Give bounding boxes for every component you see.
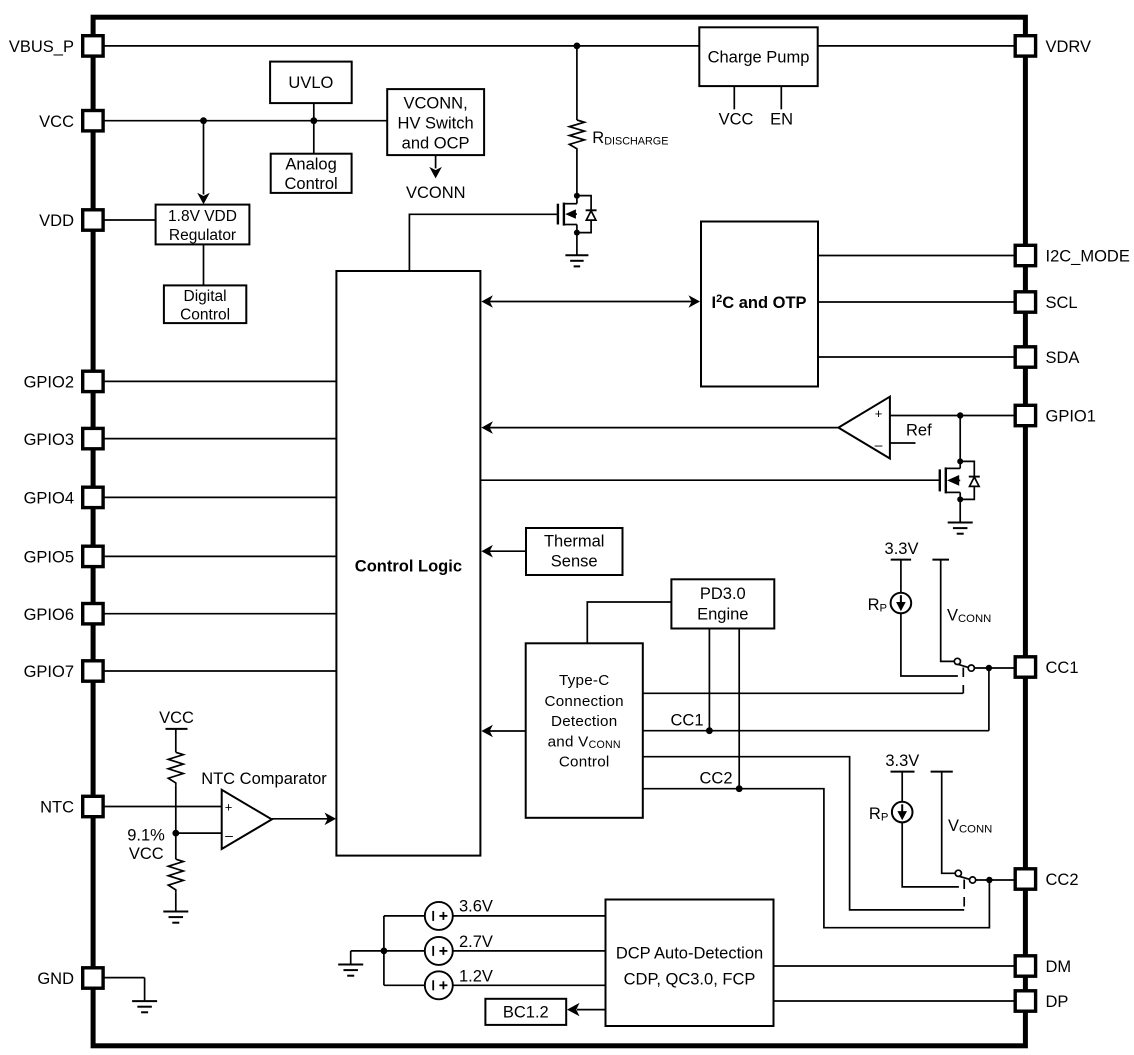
wire CC2 net: [643, 789, 990, 928]
wire switch to CC1 pin: [974, 667, 1015, 669]
svg-text:VDD: VDD: [39, 212, 74, 230]
svg-text:EN: EN: [770, 111, 793, 129]
svg-text:NTC Comparator: NTC Comparator: [201, 770, 327, 788]
node CC1/PD junction: [706, 727, 713, 734]
wire Control Logic to I2C (double arrow): [481, 295, 700, 308]
node VCC junction B: [310, 117, 317, 124]
svg-text:GPIO3: GPIO3: [24, 431, 74, 449]
svg-text:Type-C: Type-C: [559, 672, 609, 689]
svg-text:GPIO4: GPIO4: [24, 490, 74, 508]
node VBUS junction: [574, 43, 581, 50]
wire R_DISCHARGE to Q1 drain: [576, 151, 578, 196]
wire Q2 source to ground: [959, 499, 961, 521]
wire switch to CC2 pin: [976, 879, 1016, 881]
svg-text:and OCP: and OCP: [402, 135, 470, 153]
wire DCP to DM: [774, 965, 1016, 967]
pin DM: [1015, 956, 1071, 976]
block I2C and OTP: [701, 222, 818, 387]
svg-text:SDA: SDA: [1046, 349, 1080, 367]
svg-text:Connection: Connection: [545, 693, 624, 710]
svg-text:CC2: CC2: [1046, 871, 1079, 889]
svg-text:Control: Control: [559, 754, 610, 771]
svg-text:GPIO1: GPIO1: [1046, 408, 1096, 426]
pin NTC: [40, 796, 103, 816]
svg-text:Regulator: Regulator: [169, 227, 236, 244]
wire U1 output to Control Logic (arrow): [481, 421, 838, 434]
wire 3.6V source to DCP: [453, 915, 606, 917]
wire CC1 net: [643, 730, 989, 732]
wire regulator to Digital Control: [203, 244, 205, 285]
svg-text:VCC: VCC: [159, 709, 194, 727]
wire UVLO to Analog Control: [313, 103, 315, 154]
wire GPIO3 to Control Logic: [103, 438, 336, 440]
wire GPIO6 to Control Logic: [103, 613, 336, 615]
wire Control Logic to Q2 gate: [480, 479, 938, 481]
wire Charge Pump to VDRV: [818, 45, 1016, 47]
ground (sources): [338, 965, 363, 976]
pin GPIO2: [24, 371, 104, 391]
svg-text:VCONN,: VCONN,: [404, 94, 468, 112]
voltage source 1.2V: [425, 967, 493, 999]
wire VDD pin to regulator: [103, 219, 156, 221]
svg-text:VBUS_P: VBUS_P: [9, 38, 74, 56]
label CC1 net: [670, 711, 703, 729]
node Q1 drain: [574, 193, 580, 199]
wire DCP to DP: [774, 1000, 1016, 1002]
op-amp U2 (NTC comparator): [222, 790, 272, 849]
wire DCP to BC1.2 (arrow): [567, 1003, 606, 1016]
pin VDD: [39, 210, 103, 230]
pin VDRV: [1015, 36, 1091, 56]
node 9.1% VCC: [172, 830, 179, 837]
wire GPIO7 to Control Logic: [103, 670, 336, 672]
wire GPIO5 to Control Logic: [103, 555, 336, 557]
wire PD3.0 Engine to CC1 net: [708, 629, 710, 731]
svg-text:GPIO5: GPIO5: [24, 549, 74, 567]
rail VCONN (CC2): [931, 772, 993, 874]
svg-text:BC1.2: BC1.2: [503, 1003, 549, 1021]
wire PD3.0 Engine to CC2 net: [738, 629, 740, 789]
label NTC Comparator: [201, 770, 327, 788]
wire SW2 control (dashed): [963, 880, 965, 910]
wire source bus to ground: [351, 951, 384, 964]
svg-text:3.3V: 3.3V: [885, 752, 919, 770]
current source RP (CC2): [869, 802, 913, 824]
svg-text:VCONN: VCONN: [406, 184, 466, 202]
wire CC2 switch control: [643, 757, 964, 910]
svg-text:GPIO2: GPIO2: [24, 374, 74, 392]
pin GPIO1: [1015, 405, 1096, 425]
pin GPIO5: [24, 546, 104, 566]
block UVLO: [270, 62, 352, 104]
label EN (charge pump): [770, 111, 793, 129]
pin SCL: [1015, 292, 1077, 312]
wire SCL line: [818, 301, 1015, 303]
node CC1 pin junction: [986, 665, 992, 671]
wire U2 output to Control Logic (arrow): [272, 813, 336, 826]
svg-text:GPIO6: GPIO6: [24, 606, 74, 624]
svg-text:Control Logic: Control Logic: [355, 557, 462, 575]
switch SW2 (CC2): [955, 870, 976, 883]
svg-text:VCC: VCC: [719, 111, 754, 129]
svg-text:HV Switch: HV Switch: [398, 115, 474, 133]
svg-text:3.3V: 3.3V: [885, 540, 919, 558]
rail VCONN (CC1): [932, 560, 991, 662]
node source bus junction: [381, 948, 388, 955]
resistor R2 (NTC divider bottom): [168, 833, 183, 892]
block Type-C Connection Detection: [526, 643, 643, 818]
svg-text:Digital: Digital: [184, 288, 227, 305]
svg-text:Control: Control: [284, 175, 337, 193]
svg-text:Ref: Ref: [906, 422, 932, 440]
wire 2.7V source to DCP: [453, 950, 606, 952]
svg-text:UVLO: UVLO: [288, 74, 333, 92]
wire PD3.0 Engine to Type-C block: [587, 602, 671, 643]
svg-text:SCL: SCL: [1046, 294, 1078, 312]
ground (Q1): [565, 255, 588, 266]
wire VBUS to R_DISCHARGE: [576, 46, 578, 120]
wire R2 to ground: [175, 892, 177, 911]
wire SW1 control (dashed): [962, 668, 964, 694]
svg-text:Analog: Analog: [285, 156, 336, 174]
svg-text:DCP Auto-Detection: DCP Auto-Detection: [616, 944, 763, 962]
wire CC1 net riser: [988, 668, 990, 731]
block 1.8V VDD Regulator: [156, 205, 250, 245]
wire RP to switch (CC2): [902, 822, 959, 887]
pin GPIO4: [24, 487, 104, 507]
node Q1 source: [574, 230, 580, 236]
svg-text:DM: DM: [1046, 958, 1072, 976]
wire I2C_MODE line: [818, 255, 1015, 257]
label VCC (charge pump): [719, 111, 754, 129]
svg-text:GPIO7: GPIO7: [24, 663, 74, 681]
svg-text:Sense: Sense: [551, 553, 598, 571]
supply 3.3V (CC1): [885, 540, 919, 593]
svg-text:–: –: [875, 437, 883, 453]
wire VCC to VDD regulator (arrow): [197, 121, 210, 205]
pin CC2: [1015, 869, 1078, 889]
label Ref: [906, 422, 932, 440]
wire NTC pin to U2 plus: [103, 806, 222, 808]
block Analog Control: [271, 154, 352, 194]
node Q2 source: [957, 496, 963, 502]
svg-text:1.2V: 1.2V: [459, 967, 493, 985]
wire SDA line: [818, 356, 1015, 358]
svg-text:CC1: CC1: [670, 711, 703, 729]
node Q2 drain: [957, 458, 963, 464]
label VCONN: [406, 184, 466, 202]
block DCP Auto-Detection: [606, 900, 774, 1027]
wire source bus: [384, 916, 425, 985]
wire node to U2 minus: [176, 832, 222, 834]
node CC2/PD junction: [736, 785, 743, 792]
transistor Q2 GPIO1 NMOS: [940, 461, 980, 499]
svg-text:DP: DP: [1046, 993, 1069, 1011]
wire VCC rail: [103, 120, 387, 122]
svg-text:GND: GND: [37, 970, 74, 988]
wire GND pin to ground: [103, 978, 145, 1001]
svg-text:1.8V VDD: 1.8V VDD: [168, 208, 237, 225]
pin GND: [37, 968, 103, 988]
wire CC1 switch control: [643, 692, 964, 694]
svg-text:2.7V: 2.7V: [459, 933, 493, 951]
label 9.1% VCC: [127, 826, 165, 863]
label CC2 net: [699, 769, 732, 787]
wire GPIO4 to Control Logic: [103, 496, 336, 498]
wire VCONN output arrow: [429, 155, 442, 178]
wire Charge Pump EN stub: [780, 86, 782, 109]
svg-text:9.1%: 9.1%: [127, 826, 165, 844]
svg-text:Charge Pump: Charge Pump: [708, 48, 810, 66]
ground (GND pin): [132, 1001, 157, 1012]
wire Q1 source to ground: [576, 233, 578, 255]
current source RP (CC1): [868, 593, 912, 615]
pin SDA: [1015, 347, 1079, 367]
supply VCC (NTC divider): [159, 709, 194, 752]
wire Control Logic to Q1 gate: [409, 214, 557, 271]
block VCONN HV Switch and OCP: [387, 89, 484, 155]
svg-text:PD3.0: PD3.0: [700, 585, 746, 603]
svg-text:Engine: Engine: [697, 605, 748, 623]
pin GPIO6: [24, 604, 104, 624]
block Charge Pump: [699, 27, 817, 86]
voltage source 2.7V: [425, 933, 493, 965]
wire Type-C to Control Logic (arrow): [481, 725, 525, 738]
pin I2C_MODE: [1015, 245, 1130, 265]
svg-text:CDP, QC3.0, FCP: CDP, QC3.0, FCP: [624, 970, 756, 988]
supply 3.3V (CC2): [885, 752, 919, 802]
transistor Q1 discharge NMOS: [558, 196, 597, 233]
svg-text:VCC: VCC: [39, 113, 74, 131]
svg-text:NTC: NTC: [40, 799, 74, 817]
svg-text:3.6V: 3.6V: [459, 898, 493, 916]
svg-text:Thermal: Thermal: [544, 532, 605, 550]
node GPIO1 junction: [957, 412, 963, 418]
op-amp U1 (GPIO1 comparator): [838, 397, 890, 459]
pin VCC: [39, 111, 103, 131]
pin DP: [1015, 991, 1068, 1011]
svg-text:I2C_MODE: I2C_MODE: [1046, 248, 1130, 266]
switch SW1 (CC1): [954, 658, 974, 671]
wire GPIO1 to U1 plus input: [890, 415, 1015, 417]
svg-text:I2C and OTP: I2C and OTP: [712, 293, 807, 312]
svg-text:Detection: Detection: [551, 713, 617, 730]
pin VBUS_P: [9, 36, 103, 56]
voltage source 3.6V: [425, 898, 493, 930]
resistor R1 (NTC divider top): [168, 752, 183, 785]
ground (Q2): [948, 523, 973, 534]
svg-text:+: +: [225, 800, 233, 815]
node CC2 pin junction: [986, 877, 992, 883]
node VCC junction A: [200, 117, 207, 124]
wire Charge Pump VCC stub: [733, 86, 735, 109]
wire R1 to node: [175, 785, 177, 833]
wire Thermal Sense to Control Logic (arrow): [481, 545, 526, 558]
wire Ref to U1 minus input: [890, 442, 916, 444]
wire GPIO2 to Control Logic: [103, 380, 336, 382]
block Digital Control: [164, 285, 246, 323]
wire RP to switch (CC1): [901, 613, 958, 676]
pin GPIO7: [24, 661, 104, 681]
block BC1.2: [485, 999, 566, 1025]
svg-text:Control: Control: [180, 307, 230, 324]
svg-text:VDRV: VDRV: [1046, 38, 1092, 56]
svg-text:CC2: CC2: [699, 769, 732, 787]
block Control Logic: [336, 271, 480, 856]
wire GPIO1 junction to Q2 drain: [959, 416, 961, 464]
svg-text:+: +: [875, 406, 883, 421]
svg-text:CC1: CC1: [1046, 659, 1079, 677]
svg-text:–: –: [225, 827, 233, 843]
ground (NTC divider): [163, 912, 188, 923]
pin GPIO3: [24, 428, 104, 448]
resistor R_DISCHARGE: [569, 120, 668, 151]
wire 1.2V source to DCP: [453, 984, 606, 986]
pin CC1: [1015, 657, 1078, 677]
wire VBUS_P to Charge Pump: [103, 45, 699, 47]
block Thermal Sense: [526, 528, 623, 575]
svg-text:VCC: VCC: [129, 845, 164, 863]
block PD3.0 Engine: [671, 579, 774, 628]
